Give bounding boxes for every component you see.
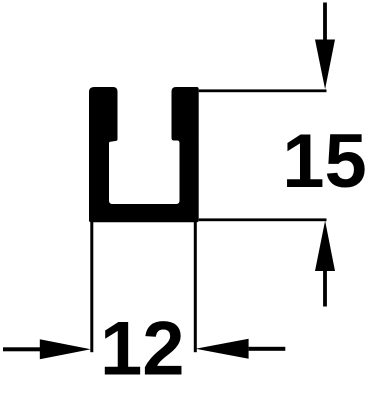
U-channel profile cross-section [89, 87, 199, 222]
arrow left for 12 right [196, 339, 286, 359]
svg-text:15: 15 [282, 119, 367, 204]
dimension line 15 bottom [199, 218, 327, 221]
extension line right for 12 [194, 222, 197, 353]
dimension line 15 top [199, 89, 327, 92]
arrow right for 12 left [3, 339, 91, 359]
svg-text:12: 12 [100, 306, 185, 391]
arrow up for 15 bottom [315, 221, 335, 307]
extension line left for 12 [90, 222, 93, 353]
arrow down for 15 top [315, 3, 335, 90]
